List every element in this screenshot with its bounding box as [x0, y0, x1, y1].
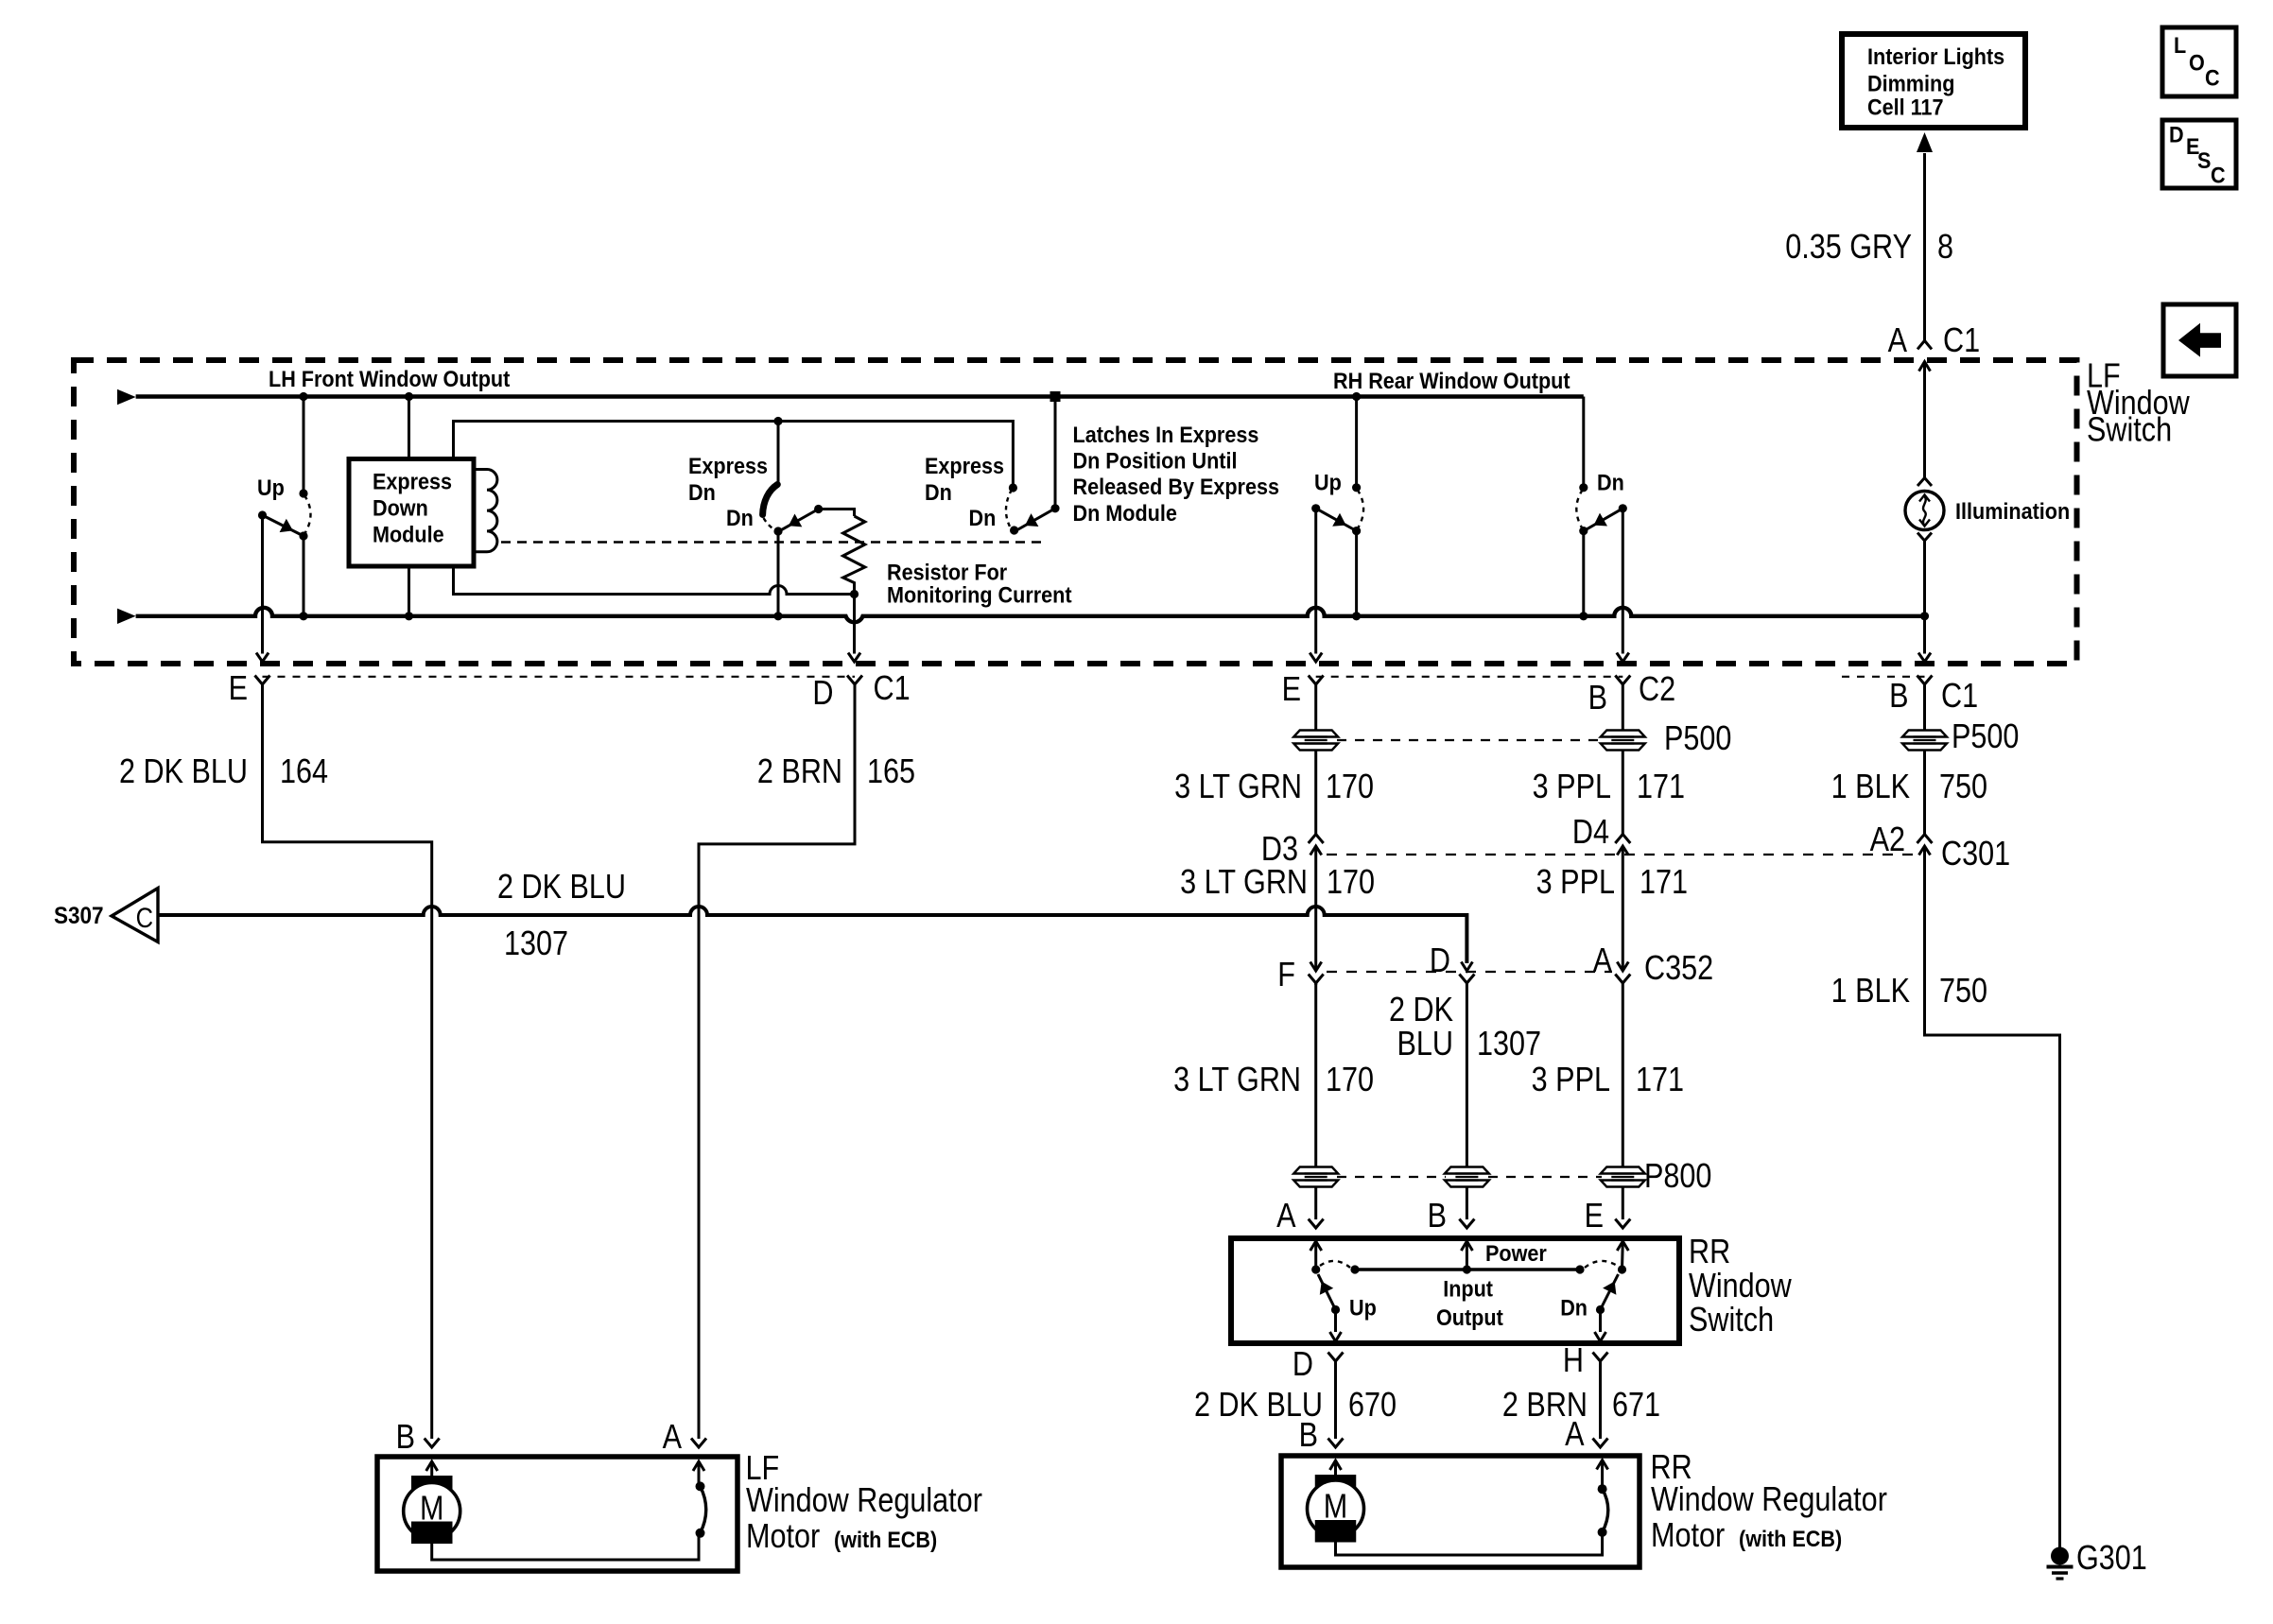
svg-text:Express: Express	[688, 453, 768, 478]
exit arrow E	[256, 653, 269, 663]
svg-text:RR: RR	[1689, 1234, 1730, 1271]
coil of Express Down Module	[474, 469, 497, 551]
svg-text:171: 171	[1637, 769, 1685, 806]
node coil wire / Express Dn 1	[773, 417, 782, 425]
lamp top connector chevron	[1917, 478, 1932, 487]
DESC reference box	[2162, 120, 2236, 188]
Express Down Module box	[349, 459, 474, 567]
RR Window Regulator Motor box	[1281, 1456, 1640, 1567]
wire P800 to pin B RR switch	[1466, 1187, 1468, 1220]
wire Up switch feed	[303, 397, 305, 494]
svg-text:Dn: Dn	[1597, 469, 1624, 494]
svg-text:B: B	[1299, 1417, 1318, 1455]
wire Express Dn 2 pivot feed	[1054, 397, 1057, 509]
inline connector P500 left half	[1293, 731, 1338, 737]
wire RH Dn contact to bus	[1582, 531, 1585, 616]
node ECB lower RR	[1598, 1528, 1607, 1537]
svg-text:3 LT GRN: 3 LT GRN	[1180, 864, 1308, 902]
svg-text:F: F	[1277, 957, 1295, 994]
connector line C2 dashed	[1316, 676, 1623, 678]
svg-text:(with ECB): (with ECB)	[834, 1527, 937, 1552]
travel dashed arc Express Dn 1	[764, 518, 774, 529]
connector E of C1	[255, 676, 270, 685]
inline connector P800 mid	[1445, 1167, 1489, 1174]
pin B stem LF motor	[426, 1461, 438, 1471]
wire LF Up output to connector E	[261, 515, 264, 654]
travel dashed arc RR Dn	[1585, 1261, 1618, 1268]
switch travel dashed arc Up	[304, 495, 311, 534]
wire coil bottom return	[454, 566, 855, 595]
wire illumination to bottom bus	[1923, 541, 1926, 616]
wire P800 to pin E RR switch	[1622, 1187, 1624, 1220]
connector A2 of C301	[1917, 835, 1933, 844]
connector A C1 male arrow	[1919, 362, 1931, 371]
connector line C1 dashed	[263, 676, 856, 678]
wire 2 BRN 165	[699, 684, 855, 1439]
wire illumination from C1	[1923, 374, 1926, 477]
svg-text:Dn: Dn	[1560, 1294, 1588, 1320]
svg-text:D: D	[2169, 122, 2184, 147]
svg-text:Motor: Motor	[1651, 1517, 1725, 1555]
wire coil top feed	[454, 422, 1014, 489]
node RH Dn arm contact	[1579, 527, 1588, 535]
wire 3 PPL 171 mid	[1622, 858, 1624, 963]
arrow into interior lights box	[1917, 132, 1933, 152]
svg-text:C352: C352	[1644, 950, 1713, 988]
node bar center	[1463, 1265, 1471, 1273]
node bottom bus x1434	[1352, 612, 1361, 620]
node RR Up pivot	[1331, 1305, 1340, 1314]
svg-text:Up: Up	[257, 475, 285, 500]
wire 2 BRN 671	[1599, 1361, 1602, 1439]
switch arm RR Up	[1318, 1274, 1336, 1310]
node top bus / Express Dn pivot	[1050, 391, 1061, 402]
wire Up contact to bottom bus	[303, 536, 305, 616]
wire RH Up feed	[1355, 397, 1358, 488]
connector pin A RR motor	[1593, 1439, 1608, 1448]
connector line P800 dashed a	[1337, 1176, 1446, 1178]
switch arm RR Dn	[1601, 1274, 1619, 1310]
svg-text:P500: P500	[1664, 720, 1731, 758]
svg-text:170: 170	[1326, 1062, 1374, 1099]
svg-text:Cell 117: Cell 117	[1867, 95, 1943, 120]
travel dashed arc Express Dn 2	[1006, 490, 1012, 527]
connector pin B LF motor	[425, 1439, 440, 1448]
RR Window Switch box	[1231, 1238, 1679, 1343]
inline connector P800 right	[1601, 1167, 1645, 1174]
inline connector P800 left	[1293, 1167, 1338, 1174]
connector A of C352	[1622, 963, 1624, 970]
svg-text:3 LT GRN: 3 LT GRN	[1174, 769, 1302, 806]
wire module output to bottom bus	[408, 566, 410, 616]
svg-text:Window: Window	[1689, 1268, 1793, 1305]
svg-text:D4: D4	[1572, 814, 1609, 852]
ECB breaker arc RR	[1603, 1489, 1608, 1532]
svg-text:1307: 1307	[1477, 1026, 1541, 1063]
wire bottom bus	[136, 608, 1925, 622]
wire RH Up output to connector E C2	[1314, 509, 1317, 654]
node Express Dn 2 contact	[1010, 526, 1018, 534]
wire B C1 to interior lights	[1923, 153, 1926, 340]
wire 2 DK BLU 1307 lower	[1466, 983, 1468, 1167]
svg-text:164: 164	[280, 753, 328, 791]
svg-text:Power: Power	[1485, 1240, 1547, 1266]
node Up fixed contact	[299, 489, 307, 497]
svg-text:P500: P500	[1952, 718, 2019, 756]
svg-text:C: C	[2205, 64, 2220, 90]
svg-text:A: A	[1593, 942, 1613, 980]
LF Window Regulator Motor box	[377, 1457, 737, 1571]
wire B C1 to P500	[1923, 684, 1926, 731]
node top bus / Up switch LF	[299, 392, 307, 401]
node bar right	[1575, 1265, 1584, 1273]
wire splice 2 DK BLU 1307	[158, 907, 1466, 963]
connector pin B RR motor	[1328, 1439, 1344, 1448]
resistor for monitoring current	[843, 516, 865, 595]
node RH Up pivot	[1311, 504, 1320, 512]
switch arm RH Up	[1316, 509, 1354, 529]
pin A stem RR motor	[1601, 1460, 1604, 1490]
svg-text:P800: P800	[1644, 1158, 1711, 1196]
node top bus / Express Down Module	[405, 392, 413, 401]
svg-text:Motor: Motor	[746, 1518, 820, 1556]
svg-text:Window Regulator: Window Regulator	[746, 1482, 982, 1520]
svg-text:Dn: Dn	[688, 479, 716, 505]
ECB breaker arc LF	[701, 1486, 706, 1532]
node RH Up arm contact	[1352, 527, 1361, 535]
svg-text:H: H	[1563, 1342, 1584, 1380]
svg-text:Monitoring Current: Monitoring Current	[887, 581, 1072, 607]
connector D4 of C301	[1615, 835, 1630, 844]
svg-text:170: 170	[1326, 769, 1374, 806]
svg-text:(with ECB): (with ECB)	[1739, 1526, 1842, 1551]
svg-text:Dn: Dn	[969, 505, 997, 530]
svg-text:D3: D3	[1261, 831, 1298, 869]
node A contact RR switch	[1311, 1265, 1320, 1273]
wire B C2 to P500	[1622, 684, 1624, 731]
wire Express Dn 1 feed	[777, 422, 780, 485]
svg-text:Dn Position Until: Dn Position Until	[1073, 447, 1238, 473]
splice S307 triangle	[112, 889, 158, 942]
svg-text:750: 750	[1939, 769, 1987, 806]
pin B stem RR switch	[1461, 1241, 1472, 1251]
mechanical link dashed line	[501, 541, 1042, 543]
svg-text:B: B	[1889, 678, 1908, 716]
switch arm Up LF	[263, 515, 302, 535]
svg-text:D: D	[1293, 1346, 1313, 1384]
svg-text:2 DK BLU: 2 DK BLU	[119, 753, 248, 791]
svg-text:Express: Express	[373, 468, 452, 493]
svg-text:671: 671	[1612, 1387, 1660, 1425]
svg-text:Illumination: Illumination	[1955, 498, 2070, 524]
connector pin H below RR switch	[1593, 1353, 1608, 1362]
node Express Dn 1 contact	[773, 527, 782, 535]
exit arrow B C2	[1617, 653, 1629, 663]
wire 2 DK BLU 670	[1334, 1361, 1337, 1439]
wire RR motor internal	[1336, 1532, 1603, 1555]
svg-text:Dn Module: Dn Module	[1073, 500, 1177, 526]
svg-text:C301: C301	[1941, 836, 2010, 873]
wire 3 LT GRN 170 mid	[1314, 858, 1317, 963]
node E contact RR switch	[1618, 1265, 1626, 1273]
node bottom bus x2035	[1920, 612, 1929, 620]
pin A stem RR switch	[1310, 1241, 1322, 1251]
connector pin E RR switch	[1615, 1219, 1630, 1229]
exit arrow B C1	[1918, 653, 1931, 663]
svg-text:2 DK: 2 DK	[1389, 992, 1453, 1029]
switch arm Express Dn 2	[1017, 509, 1055, 530]
node RR Dn pivot	[1596, 1305, 1605, 1314]
node RH Dn pivot	[1619, 504, 1627, 512]
svg-text:E: E	[1585, 1198, 1604, 1235]
svg-text:Dimming: Dimming	[1867, 70, 1954, 95]
svg-text:D: D	[1430, 942, 1450, 980]
switch arm RH Dn	[1587, 509, 1622, 529]
svg-text:C2: C2	[1639, 671, 1675, 709]
svg-text:2 BRN: 2 BRN	[757, 753, 842, 791]
svg-text:Dn: Dn	[726, 505, 754, 530]
svg-text:Interior Lights: Interior Lights	[1867, 43, 2004, 69]
node bottom bus x321	[299, 612, 307, 620]
ground G301 symbol	[2051, 1547, 2069, 1565]
wire resistor output to connector D	[853, 595, 856, 654]
travel dashed arc RH Up	[1358, 490, 1364, 529]
connector B of C2	[1615, 676, 1630, 685]
connector line P500 dashed	[1337, 739, 1602, 741]
node Up arm contact	[299, 531, 307, 540]
switch arm Express Dn 1	[781, 510, 819, 530]
illumination lamp circle	[1905, 492, 1944, 530]
svg-text:8: 8	[1937, 229, 1953, 267]
svg-text:Input: Input	[1443, 1275, 1493, 1301]
svg-text:670: 670	[1348, 1387, 1397, 1425]
travel dashed arc RH Dn	[1576, 490, 1583, 529]
wire P800 to pin A RR switch	[1314, 1187, 1317, 1220]
common bar RR switch	[1355, 1268, 1580, 1271]
wire E C2 to P500	[1314, 684, 1317, 731]
svg-text:1307: 1307	[504, 925, 568, 963]
node Up switch pivot	[258, 510, 267, 519]
connector D of C1	[847, 676, 862, 685]
svg-text:Express: Express	[925, 453, 1004, 478]
wire 1 BLK 750 upper	[1923, 751, 1926, 837]
svg-text:Released By Express: Released By Express	[1073, 474, 1280, 499]
connector pin A LF motor	[691, 1439, 706, 1448]
svg-text:1 BLK: 1 BLK	[1831, 769, 1910, 806]
lamp filament	[1919, 495, 1930, 502]
svg-text:S: S	[2197, 147, 2211, 173]
svg-text:3 PPL: 3 PPL	[1533, 769, 1611, 806]
svg-text:RH Rear Window Output: RH Rear Window Output	[1333, 368, 1570, 393]
wire 3 LT GRN 170 lower	[1314, 983, 1317, 1167]
svg-text:Up: Up	[1349, 1294, 1377, 1320]
wire RH Up contact to bus	[1355, 531, 1358, 616]
svg-text:165: 165	[867, 753, 915, 791]
node RH Dn fixed contact	[1579, 483, 1588, 492]
connector pin D below RR switch	[1328, 1353, 1344, 1362]
svg-text:3 PPL: 3 PPL	[1536, 864, 1615, 902]
connector line B C1 dashed	[1842, 676, 1925, 678]
connector line C301 dashed	[1327, 854, 1913, 855]
wire bottom bus feed arrow	[117, 609, 136, 624]
svg-text:S307: S307	[54, 903, 104, 929]
svg-text:C: C	[2211, 163, 2226, 188]
LF Window Switch dashed enclosure box	[74, 360, 2077, 664]
svg-text:Switch: Switch	[2087, 411, 2172, 449]
inline connector P500 mid	[1601, 731, 1645, 737]
svg-text:0.35 GRY: 0.35 GRY	[1785, 229, 1912, 267]
wire RH Dn output to connector B C2	[1622, 509, 1624, 654]
inline connector P500 right	[1902, 731, 1947, 737]
svg-text:A: A	[663, 1419, 683, 1457]
svg-text:750: 750	[1939, 973, 1987, 1011]
pin A stem LF motor	[698, 1461, 701, 1486]
svg-text:LH Front Window Output: LH Front Window Output	[269, 366, 511, 391]
svg-text:171: 171	[1636, 1062, 1684, 1099]
motor M RR	[1315, 1475, 1357, 1497]
node Express Dn 2 pivot	[1050, 504, 1059, 512]
Interior Lights Dimming Cell 117 box	[1842, 34, 2025, 128]
connector D of C352	[1461, 962, 1472, 972]
connector pin A RR switch	[1309, 1219, 1324, 1229]
node Express Dn 1 pivot	[814, 505, 823, 513]
node bar left	[1350, 1265, 1359, 1273]
svg-text:Switch: Switch	[1689, 1302, 1774, 1339]
back arrow icon	[2178, 323, 2221, 357]
wire pivot to resistor	[819, 510, 855, 517]
wire RH Dn feed corner	[1582, 397, 1585, 488]
node bottom bus x1674	[1579, 612, 1588, 620]
svg-text:170: 170	[1327, 864, 1375, 902]
svg-text:3 PPL: 3 PPL	[1532, 1062, 1610, 1099]
svg-text:C1: C1	[1943, 322, 1980, 360]
svg-text:B: B	[396, 1419, 415, 1457]
wire 3 PPL 171 upper	[1622, 751, 1624, 837]
pin B stem RR motor	[1330, 1460, 1342, 1470]
connector pin B RR switch	[1459, 1219, 1474, 1229]
svg-text:A: A	[1565, 1416, 1585, 1454]
back arrow box	[2163, 304, 2236, 376]
wire 2 DK BLU 164	[263, 684, 432, 1439]
svg-text:L: L	[2174, 32, 2186, 58]
svg-text:BLU: BLU	[1397, 1026, 1453, 1063]
pin E stem RR switch	[1617, 1241, 1628, 1251]
wire module control input	[408, 397, 410, 459]
node ECB lower LF	[696, 1529, 705, 1538]
svg-text:B: B	[1588, 680, 1607, 717]
svg-text:O: O	[2189, 49, 2205, 75]
node top bus / RH Up switch	[1352, 392, 1361, 401]
svg-text:1 BLK: 1 BLK	[1831, 973, 1910, 1011]
connector F of C352	[1314, 963, 1317, 970]
svg-text:Output: Output	[1436, 1304, 1503, 1330]
svg-text:3 LT GRN: 3 LT GRN	[1173, 1062, 1301, 1099]
latched contact flag Express Dn 1	[763, 485, 778, 515]
node Express Dn 2 top contact	[1009, 483, 1017, 492]
connector line P800 dashed b	[1488, 1176, 1602, 1178]
node bottom bus x432	[405, 612, 413, 620]
svg-text:Down: Down	[373, 494, 428, 520]
node bottom bus x823	[773, 612, 782, 620]
svg-text:A: A	[1888, 322, 1908, 360]
svg-text:G301: G301	[2076, 1540, 2147, 1578]
motor M LF	[411, 1476, 453, 1498]
wire 3 PPL 171 lower	[1622, 983, 1624, 1167]
svg-text:A: A	[1276, 1198, 1296, 1235]
travel dashed arc RR Up	[1320, 1261, 1350, 1268]
connector B of C1	[1917, 676, 1933, 685]
wire Express Dn 1 contact to bus	[777, 531, 780, 616]
node resistor bottom junction	[850, 590, 859, 598]
connector A C1 female chevron	[1917, 340, 1932, 349]
wire 3 LT GRN 170 upper	[1314, 751, 1317, 837]
LOC reference box	[2162, 27, 2236, 96]
svg-text:E: E	[229, 670, 248, 708]
node ECB upper RR	[1598, 1484, 1607, 1494]
node RH Up fixed contact	[1352, 483, 1361, 492]
svg-text:Latches In Express: Latches In Express	[1073, 422, 1259, 447]
wire illumination output to B C1	[1923, 616, 1926, 654]
svg-text:Window Regulator: Window Regulator	[1651, 1481, 1887, 1519]
wire LF motor internal	[432, 1533, 699, 1560]
svg-text:2 DK BLU: 2 DK BLU	[497, 869, 626, 907]
wire RR Dn output	[1599, 1310, 1602, 1333]
svg-text:D: D	[812, 675, 833, 713]
svg-text:C1: C1	[874, 670, 911, 708]
node ECB upper LF	[696, 1481, 705, 1491]
exit arrow E C2	[1310, 653, 1322, 663]
svg-text:171: 171	[1640, 864, 1688, 902]
svg-text:Module: Module	[373, 521, 444, 546]
wire top bus LH/RH output	[136, 394, 1584, 398]
svg-text:Up: Up	[1314, 469, 1342, 494]
svg-text:E: E	[1282, 671, 1301, 709]
svg-text:C: C	[136, 902, 153, 933]
wire RR Up output	[1334, 1310, 1337, 1333]
connector D3 of C301	[1309, 835, 1324, 844]
svg-text:C1: C1	[1941, 678, 1978, 716]
svg-text:B: B	[1428, 1198, 1447, 1235]
connector line C352 dashed	[1327, 971, 1612, 973]
lamp bottom connector chevron	[1917, 533, 1932, 542]
wire 1 BLK 750 to ground run	[1925, 858, 2060, 1547]
svg-text:A2: A2	[1870, 821, 1905, 859]
exit arrow D	[848, 653, 860, 663]
connector E of C2	[1309, 676, 1324, 685]
wire top bus feed arrow	[117, 389, 136, 405]
svg-text:Dn: Dn	[925, 479, 952, 505]
